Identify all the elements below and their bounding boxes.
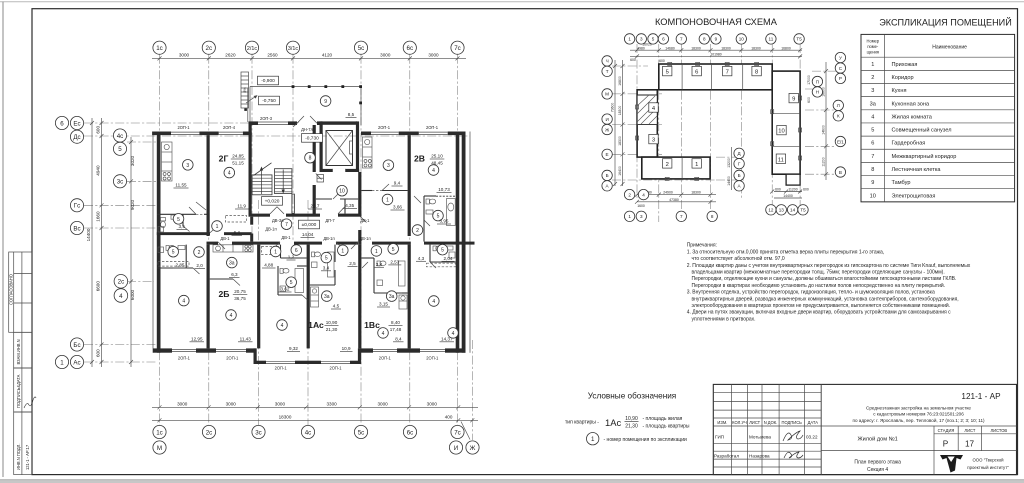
kitchen counter 2В	[363, 137, 373, 168]
svg-text:4,5: 4,5	[333, 304, 340, 309]
top axis circles row	[153, 41, 464, 54]
svg-text:8,5: 8,5	[348, 112, 355, 117]
svg-text:5: 5	[177, 217, 180, 223]
svg-text:2с: 2с	[206, 45, 213, 52]
signature 1	[783, 431, 803, 441]
svg-text:4: 4	[432, 168, 435, 174]
bath 2В lower fixtures	[433, 246, 436, 251]
svg-text:3с: 3с	[255, 429, 262, 436]
svg-text:4с: 4с	[117, 133, 124, 140]
area values	[173, 112, 455, 352]
svg-text:2: 2	[628, 192, 631, 197]
room 1 low c	[371, 246, 382, 257]
bottom-left bar	[642, 157, 710, 179]
svg-text:-0,730: -0,730	[305, 136, 319, 142]
svg-text:ПОДПИСЬ: ПОДПИСЬ	[782, 420, 803, 425]
svg-text:щения: щения	[867, 50, 879, 55]
svg-text:N ДОК.: N ДОК.	[764, 420, 778, 425]
svg-text:2,5: 2,5	[349, 261, 356, 266]
axis circle 2c bottom	[202, 425, 215, 438]
svg-text:9: 9	[792, 97, 795, 103]
dashed wardrobe hall 2Г	[226, 216, 247, 223]
room 2 right	[412, 225, 423, 236]
top bar cell dividers	[681, 64, 683, 90]
svg-text:ЛИСТ: ЛИСТ	[964, 428, 975, 433]
bottom dimension lines	[152, 401, 478, 439]
interior wall 6c lower	[408, 245, 411, 349]
bath 1Ас fixtures	[280, 269, 283, 274]
axis circle Бс	[70, 338, 83, 351]
bottom exterior wall piers (left part)	[153, 348, 172, 352]
svg-text:2ОП-1: 2ОП-1	[378, 125, 391, 130]
svg-text:с кадастровым номером 76:23:02: с кадастровым номером 76:23:021501:206	[873, 412, 964, 417]
svg-text:121-1 - АР: 121-1 - АР	[961, 392, 1001, 401]
svg-text:тип квартиры -: тип квартиры -	[565, 419, 599, 425]
room number circles	[168, 96, 458, 339]
section 10	[777, 125, 786, 134]
svg-text:18300: 18300	[279, 414, 292, 419]
stair flight right	[275, 169, 292, 194]
svg-text:3000: 3000	[226, 401, 237, 406]
svg-text:4980: 4980	[637, 46, 645, 50]
svg-text:10,90: 10,90	[625, 416, 638, 422]
svg-text:23,7: 23,7	[311, 204, 320, 209]
dashed opening 9,4	[372, 190, 382, 192]
svg-text:- площадь квартиры: - площадь квартиры	[643, 423, 690, 429]
diagonal leader bay	[293, 122, 299, 128]
left axis circles	[55, 116, 127, 368]
washing machine 2Г	[158, 227, 164, 233]
box ПОДП.и ДАТА	[14, 368, 32, 412]
svg-text:10,90: 10,90	[326, 320, 338, 325]
svg-text:2ОП-1: 2ОП-1	[178, 356, 191, 361]
svg-text:электрооборудования в квартир: электрооборудования в квартирах проектом…	[692, 302, 951, 309]
interior wall 2c lower	[207, 245, 210, 349]
svg-text:1с: 1с	[156, 429, 163, 436]
svg-text:7: 7	[285, 222, 288, 228]
svg-text:П: П	[816, 79, 819, 84]
svg-text:ДАТА: ДАТА	[808, 420, 819, 425]
svg-text:В: В	[839, 170, 842, 175]
building outline: top bar	[659, 64, 772, 90]
svg-text:3: 3	[871, 88, 874, 94]
svg-text:1,2: 1,2	[288, 255, 295, 260]
svg-text:3000: 3000	[179, 53, 190, 58]
section 11	[776, 154, 785, 163]
stair arrow down right flight	[282, 170, 284, 193]
room 2 low	[194, 247, 205, 258]
svg-text:Жилой дом №1: Жилой дом №1	[857, 436, 897, 443]
svg-text:ЛИСТОВ: ЛИСТОВ	[990, 428, 1007, 433]
company logo	[940, 455, 963, 473]
svg-text:4: 4	[432, 299, 435, 305]
bath2 1Ас fixtures	[328, 252, 335, 277]
svg-text:6,3: 6,3	[231, 272, 238, 277]
bay window 2ОП-1 a	[266, 360, 295, 362]
diagonal leader 2В	[414, 196, 421, 203]
diagonal leader 2Г room3	[196, 202, 206, 210]
axis circle 7c bottom	[451, 425, 464, 438]
bath 2В tub	[447, 199, 456, 226]
room 6 low	[291, 245, 302, 256]
bath 2В sink	[426, 210, 433, 214]
scan edge top line	[0, 1, 1024, 3]
svg-text:М: М	[605, 92, 609, 97]
svg-text:5: 5	[325, 256, 328, 262]
window ticks on outline	[636, 63, 802, 181]
axis circle 1c bottom	[153, 425, 166, 438]
svg-text:6с: 6с	[407, 45, 414, 52]
svg-text:Н: Н	[816, 90, 819, 95]
svg-text:КОЛ.УЧ: КОЛ.УЧ	[732, 420, 747, 425]
room 9	[320, 96, 331, 107]
svg-text:Тамбур: Тамбур	[892, 180, 911, 186]
svg-text:1. За относительную отм.0,000: 1. За относительную отм.0,000 принята от…	[687, 249, 884, 255]
svg-text:2В: 2В	[414, 154, 425, 164]
door ДН-7л opening swing	[297, 116, 304, 123]
door ДП-7 swing	[338, 207, 345, 214]
svg-text:3: 3	[652, 138, 655, 144]
svg-text:2,0: 2,0	[196, 263, 203, 268]
svg-text:1: 1	[375, 249, 378, 255]
section 5	[663, 66, 672, 75]
bath 1Вс fixtures	[377, 261, 380, 266]
svg-text:8: 8	[871, 167, 874, 173]
bath 2Б fixtures	[158, 247, 164, 253]
svg-text:ДВ-3л: ДВ-3л	[272, 218, 284, 223]
svg-text:18300: 18300	[691, 46, 701, 50]
elevator cab with cross	[326, 131, 353, 166]
svg-text:4: 4	[281, 323, 284, 329]
svg-text:5: 5	[392, 247, 395, 253]
door corridor 2Б	[218, 242, 225, 249]
bottom exterior wall piers (right part)	[361, 348, 373, 352]
svg-text:Перегородки, отделяющие кухни: Перегородки, отделяющие кухни и санузлы,…	[692, 275, 957, 282]
axis circle Дс	[70, 130, 83, 143]
svg-text:по адресу: г. Ярославль, пер.: по адресу: г. Ярославль, пер. Тепловой, …	[852, 417, 985, 423]
svg-text:1: 1	[628, 214, 631, 219]
svg-text:3000: 3000	[275, 401, 286, 406]
svg-text:3,5: 3,5	[179, 224, 186, 229]
corridor wall at 2/1c	[250, 217, 253, 225]
partition 2Г kitchen/bath	[157, 213, 196, 215]
interior wall stair left	[249, 125, 252, 217]
project description	[852, 405, 985, 423]
room 5	[173, 214, 184, 225]
door 2Б kitchen	[233, 279, 240, 286]
svg-text:3с: 3с	[117, 179, 124, 186]
svg-text:14600: 14600	[822, 125, 826, 135]
window 2ОП-3	[258, 121, 288, 123]
svg-text:3,62: 3,62	[281, 287, 290, 292]
row lines	[861, 69, 1015, 71]
svg-text:Среднеэтажная застройка на зем: Среднеэтажная застройка на земельном уча…	[866, 405, 971, 411]
svg-text:ДВ-1п: ДВ-1п	[323, 236, 334, 241]
porch post dots	[292, 85, 295, 88]
svg-text:1: 1	[871, 62, 874, 68]
legend circled 1	[587, 433, 599, 445]
svg-text:10: 10	[778, 129, 784, 135]
svg-text:3,15: 3,15	[379, 302, 388, 307]
svg-text:16800: 16800	[781, 46, 791, 50]
box ВЗАМ.ИНВ.N	[14, 332, 32, 368]
stair arrow up left flight	[261, 168, 263, 195]
svg-text:4,35: 4,35	[345, 203, 354, 208]
scheme bottom dimension lines	[637, 194, 716, 196]
axis circle Вс	[70, 221, 83, 234]
svg-text:7с: 7с	[454, 45, 461, 52]
window 2ОП-1 bottom r2	[420, 348, 445, 350]
room 7	[281, 219, 292, 230]
svg-text:600: 600	[775, 188, 781, 192]
svg-text:4. Двери на путях эвакуации, в: 4. Двери на путях эвакуации, включая вхо…	[687, 309, 951, 316]
bay window 2ОП-1 b	[321, 360, 350, 362]
page left edge line	[2, 2, 4, 477]
section 8	[752, 66, 761, 75]
svg-text:- площадь жилая: - площадь жилая	[643, 416, 683, 422]
svg-text:8: 8	[755, 70, 758, 76]
svg-text:ООО "Тверской: ООО "Тверской	[972, 458, 1004, 463]
svg-text:8: 8	[309, 156, 312, 162]
title block frame	[713, 384, 1016, 474]
svg-text:3000: 3000	[428, 53, 439, 58]
corridor bottom wall	[207, 242, 219, 245]
svg-text:1: 1	[60, 359, 64, 366]
svg-text:Т: Т	[606, 69, 609, 74]
door 2В hall	[382, 184, 389, 191]
window 2ОП-1 bottom l1	[172, 348, 196, 350]
svg-text:4,88: 4,88	[264, 263, 273, 268]
room 5 low	[168, 246, 179, 257]
axis circle Ас	[70, 355, 83, 368]
svg-text:73600: 73600	[611, 103, 615, 113]
svg-text:4940: 4940	[96, 165, 101, 176]
axis circle 3c bottom	[252, 425, 265, 438]
partition 2Б bath/wc	[157, 267, 193, 269]
svg-text:17000: 17000	[807, 75, 811, 85]
scheme left dimension lines	[614, 60, 616, 186]
svg-text:1: 1	[591, 436, 595, 443]
svg-text:внутриквартирных дверей, разво: внутриквартирных дверей, разводка инжене…	[692, 295, 959, 302]
left bar	[637, 90, 657, 157]
svg-text:14680: 14680	[665, 46, 675, 50]
svg-text:Разработал: Разработал	[714, 454, 739, 459]
door corridor 2	[336, 242, 343, 249]
scheme axis circles inner court	[734, 148, 744, 191]
interior wall 4c lower	[307, 245, 310, 349]
axis circle 4c bottom	[301, 425, 314, 438]
svg-text:Коридор: Коридор	[892, 75, 914, 81]
svg-text:8: 8	[711, 214, 714, 219]
svg-text:14400: 14400	[727, 176, 731, 186]
svg-text:План первого этажа: План первого этажа	[854, 460, 901, 466]
svg-text:21,30: 21,30	[326, 327, 338, 332]
header row	[861, 56, 1015, 58]
svg-text:3. Внутренняя отделка, устройс: 3. Внутренняя отделка, устройство перего…	[687, 289, 935, 296]
room 4 low f	[448, 328, 459, 339]
svg-text:1: 1	[274, 250, 277, 256]
svg-text:21,30: 21,30	[625, 423, 638, 429]
scheme axis circles top row	[624, 34, 804, 44]
stove 2Г	[163, 173, 166, 176]
top exterior wall piers (right side)	[361, 132, 371, 136]
svg-text:12,95: 12,95	[191, 336, 203, 341]
stair flight left	[252, 175, 272, 195]
partition 2В bath	[424, 195, 436, 197]
svg-text:4: 4	[119, 293, 123, 300]
door entry 2Г	[210, 226, 218, 233]
svg-text:КОМПОНОВОЧНАЯ СХЕМА: КОМПОНОВОЧНАЯ СХЕМА	[655, 17, 778, 27]
svg-text:1Ас: 1Ас	[605, 417, 621, 428]
svg-text:ГИП: ГИП	[715, 435, 724, 440]
svg-text:2620: 2620	[225, 53, 236, 58]
svg-text:2ОП-1: 2ОП-1	[379, 356, 392, 361]
svg-text:1: 1	[386, 198, 389, 204]
svg-text:18300: 18300	[618, 136, 622, 146]
svg-text:что соответствует абсолютной о: что соответствует абсолютной отм. 97,0	[692, 255, 785, 262]
svg-text:14400: 14400	[783, 194, 793, 198]
svg-text:-0,900: -0,900	[261, 78, 275, 84]
top exterior wall piers (left apartment)	[152, 132, 171, 136]
svg-text:11,9: 11,9	[237, 204, 246, 209]
svg-text:3000: 3000	[380, 53, 391, 58]
svg-text:4,3: 4,3	[418, 256, 425, 261]
bay window walls	[254, 348, 257, 364]
room 5 low e	[321, 252, 332, 263]
horizontal axis dash-dot lines	[84, 122, 253, 124]
svg-text:10,9: 10,9	[342, 346, 351, 351]
room 1	[212, 221, 223, 232]
svg-text:47380: 47380	[669, 198, 679, 202]
svg-text:Мотылева: Мотылева	[749, 435, 771, 440]
svg-text:2ОП-1: 2ОП-1	[426, 125, 439, 130]
svg-text:ИНВ.N ПОДЛ.: ИНВ.N ПОДЛ.	[16, 444, 21, 471]
svg-text:6: 6	[662, 37, 665, 42]
interior wall 6c upper	[408, 135, 411, 236]
svg-text:1600: 1600	[637, 204, 645, 208]
level ±0.000	[299, 220, 320, 229]
door swing room10	[333, 193, 339, 199]
svg-text:3а: 3а	[324, 294, 330, 300]
svg-text:И: И	[605, 117, 608, 122]
room 5 low c	[388, 244, 399, 255]
room 3а low c	[386, 291, 397, 302]
axis circle 4с	[113, 129, 126, 142]
svg-text:2ОП-1: 2ОП-1	[329, 365, 342, 370]
svg-text:4120: 4120	[322, 53, 333, 58]
svg-text:Р: Р	[943, 440, 949, 449]
svg-text:2: 2	[871, 75, 874, 81]
svg-text:36,75: 36,75	[234, 296, 246, 301]
section 1	[692, 159, 701, 168]
svg-text:11: 11	[769, 37, 774, 42]
door 2Б bath	[193, 268, 200, 274]
level marks and door/window labels	[177, 76, 439, 370]
room 4 low e	[378, 328, 389, 339]
svg-text:1Вс: 1Вс	[364, 320, 380, 330]
section 7	[723, 66, 732, 75]
svg-text:К: К	[837, 114, 840, 119]
partition 1Вс bath	[361, 257, 374, 259]
room 3	[183, 160, 194, 171]
partition 1Ас hall/ward	[280, 245, 282, 258]
window 2ОП-1 right a	[371, 131, 399, 133]
svg-text:8,4: 8,4	[395, 336, 402, 341]
room 1 right	[382, 194, 393, 205]
svg-text:4: 4	[230, 313, 233, 319]
axis circle И	[449, 441, 462, 454]
rows text	[870, 62, 957, 200]
svg-text:6000: 6000	[130, 289, 135, 300]
scheme bottom-right dims	[774, 191, 802, 193]
svg-text:101980: 101980	[710, 53, 721, 57]
scheme right dimension lines	[825, 62, 827, 180]
svg-text:10: 10	[870, 193, 876, 199]
svg-text:Условные обозначения: Условные обозначения	[588, 392, 676, 401]
outer face line left	[152, 132, 154, 353]
room 4 low b	[226, 310, 237, 321]
kitchen counter 2Г	[162, 142, 173, 181]
svg-text:11200: 11200	[822, 157, 826, 166]
room 3а low	[227, 257, 238, 268]
svg-text:5: 5	[118, 146, 122, 153]
level -0.900	[258, 76, 279, 85]
svg-text:5: 5	[666, 70, 669, 76]
entrance ramp	[241, 72, 249, 108]
partition 1Вс kitchen zone	[402, 292, 408, 294]
svg-text:ДВ-1п: ДВ-1п	[265, 227, 276, 232]
axis circle 5	[113, 142, 126, 155]
room 10	[337, 185, 348, 196]
svg-text:У: У	[839, 55, 842, 60]
level -0.730	[302, 134, 323, 143]
stairwell bottom wall	[249, 214, 271, 217]
svg-text:Ж: Ж	[470, 445, 476, 452]
svg-text:11: 11	[778, 157, 784, 163]
svg-text:ПОДПИСЬ&ДАТА: ПОДПИСЬ&ДАТА	[16, 374, 21, 408]
stage/sheet cells	[933, 426, 935, 475]
svg-text:1с: 1с	[156, 45, 163, 52]
svg-text:600: 600	[659, 59, 665, 63]
svg-text:20,75: 20,75	[234, 289, 246, 294]
svg-text:9020: 9020	[130, 199, 135, 210]
bath 2В toilet	[426, 199, 429, 204]
svg-text:Прихожая: Прихожая	[892, 62, 918, 68]
door 2В lower bath	[430, 262, 436, 268]
room 4 low c	[277, 320, 288, 331]
svg-text:4с: 4с	[305, 429, 312, 436]
svg-text:Лестничная клетка: Лестничная клетка	[892, 167, 942, 173]
porch bottom wall piers	[249, 121, 259, 125]
svg-text:2ОП-4: 2ОП-4	[223, 125, 236, 130]
svg-text:ЛИСТ: ЛИСТ	[749, 420, 760, 425]
svg-text:-0,750: -0,750	[262, 98, 276, 104]
section 3	[649, 134, 658, 143]
axis circle 7c top	[451, 41, 464, 54]
svg-text:4: 4	[182, 299, 185, 305]
svg-text:13200: 13200	[727, 158, 731, 168]
svg-text:ВЗАМ.ИНВ.N: ВЗАМ.ИНВ.N	[16, 339, 21, 364]
svg-text:Е: Е	[606, 152, 609, 157]
svg-text:2ОП-3: 2ОП-3	[260, 116, 273, 121]
door ДВ-3л swing	[270, 207, 277, 214]
svg-text:1Ас: 1Ас	[308, 320, 324, 330]
svg-text:3000: 3000	[427, 401, 438, 406]
svg-text:3: 3	[387, 163, 390, 169]
svg-text:3/1с: 3/1с	[288, 46, 298, 52]
partition room 10 / corridor	[316, 198, 332, 200]
svg-text:1: 1	[628, 37, 631, 42]
